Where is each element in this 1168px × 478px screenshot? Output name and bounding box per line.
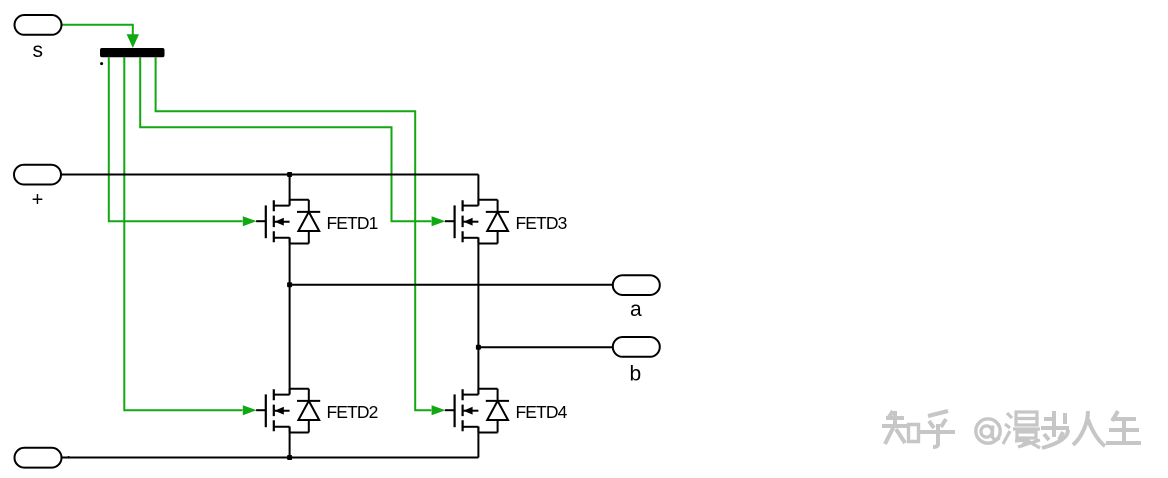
port -: [15, 448, 62, 468]
wire: demux out4 to FETD4 gate (green): [156, 57, 432, 410]
svg-text:a: a: [630, 298, 642, 321]
wire: left leg upper (rail to FETD1 drain): [289, 175, 291, 205]
watermark glyph hu: [920, 411, 955, 447]
watermark glyph ren: [1073, 411, 1105, 446]
wire: right leg upper (rail to FETD3 drain): [477, 175, 479, 205]
transistor FETD3: [432, 200, 509, 244]
wire: node b to port b: [478, 346, 612, 348]
watermark glyph bu: [1041, 411, 1069, 448]
svg-text:b: b: [629, 363, 641, 386]
wire: right leg middle (FETD3 source to FETD4 drain): [477, 238, 479, 394]
label b: [629, 363, 641, 386]
wire: bottom rail from - port: [62, 457, 479, 459]
junction: node a: [287, 282, 292, 287]
watermark: [882, 411, 1141, 448]
connector nub - port: [67, 456, 70, 459]
port a: [613, 275, 660, 295]
watermark glyph sheng: [1106, 411, 1141, 443]
watermark glyph man: [1003, 412, 1040, 448]
label FETD2: [327, 402, 378, 422]
junction: bottom rail / FETD2 source: [287, 455, 292, 460]
svg-text:FETD2: FETD2: [327, 402, 378, 422]
wire: demux out3 to FETD3 gate (green): [140, 57, 431, 221]
wire: demux out2 to FETD2 gate (green): [124, 57, 242, 410]
wire: left leg middle (FETD1 source to FETD2 drain): [289, 238, 291, 394]
label s: [33, 39, 44, 62]
wire: top rail from + port: [61, 174, 478, 176]
wire: demux out1 to FETD1 gate (green): [109, 57, 243, 221]
label a: [630, 298, 642, 321]
svg-text:FETD3: FETD3: [516, 213, 567, 233]
demux D1: [100, 48, 165, 57]
port b: [613, 337, 660, 357]
label FETD3: [516, 213, 567, 233]
junction: top rail / FETD1 drain: [287, 172, 292, 177]
svg-text:FETD1: FETD1: [327, 213, 378, 233]
port +: [14, 165, 61, 185]
svg-text:+: +: [32, 189, 44, 211]
wire: right leg lower (FETD4 source to bottom rail): [477, 427, 479, 458]
port s: [15, 15, 62, 35]
wire: node a to port a: [290, 284, 613, 286]
svg-text:s: s: [33, 39, 44, 62]
label +: [32, 189, 44, 211]
label FETD4: [516, 402, 568, 422]
svg-text:FETD4: FETD4: [516, 402, 568, 422]
wire: s port to demux (green): [62, 25, 139, 48]
watermark glyph at: [976, 419, 1000, 443]
transistor FETD4: [432, 389, 509, 433]
annotation dot: [100, 62, 103, 65]
junction: node b: [476, 345, 481, 350]
watermark glyph zhi: [882, 411, 907, 444]
transistor FETD2: [243, 389, 320, 433]
wire: left leg lower (FETD2 source to bottom rail): [289, 427, 291, 458]
label FETD1: [327, 213, 378, 233]
transistor FETD1: [243, 200, 320, 244]
